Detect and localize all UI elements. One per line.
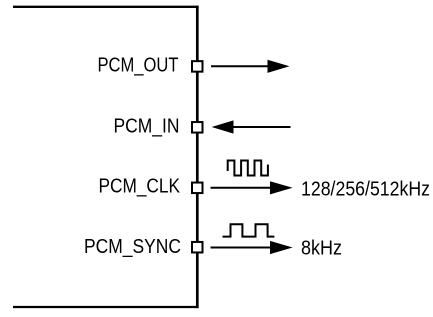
wire PCM_OUT arrow (output, pointing right) (211, 60, 290, 73)
wire PCM_CLK arrow (output, pointing right) (211, 181, 293, 194)
sync waveform symbol (frame pulses, 2 pulses) (223, 224, 275, 236)
chip outline U1: right edge (196, 6, 199, 308)
pin PCM_CLK (192, 183, 203, 194)
wire PCM_IN arrow (input, pointing left) (212, 120, 291, 133)
svg-text:PCM_SYNC: PCM_SYNC (84, 236, 181, 258)
wire PCM_SYNC arrow (output, pointing right) (211, 241, 293, 254)
svg-text:PCM_CLK: PCM_CLK (99, 176, 181, 198)
svg-text:8kHz: 8kHz (301, 238, 342, 260)
pin PCM_IN (192, 122, 203, 133)
svg-text:PCM_OUT: PCM_OUT (98, 55, 179, 77)
svg-text:128/256/512kHz: 128/256/512kHz (301, 178, 430, 200)
pin PCM_OUT (192, 61, 203, 72)
chip outline U1: bottom edge (13, 306, 199, 308)
chip outline U1 (partial rectangle, open on left): top edge (13, 6, 199, 8)
clock waveform symbol (square wave, 3 cycles) (228, 161, 268, 176)
pin PCM_SYNC (192, 242, 203, 253)
svg-text:PCM_IN: PCM_IN (114, 116, 180, 138)
